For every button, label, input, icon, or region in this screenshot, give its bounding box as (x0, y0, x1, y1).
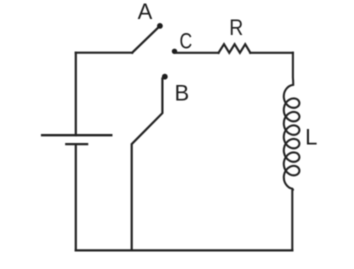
svg-text:C: C (179, 30, 192, 54)
svg-text:B: B (174, 81, 189, 106)
wire (75, 53, 77, 136)
wire (76, 249, 292, 251)
wire (177, 52, 219, 54)
svg-text:A: A (138, 0, 153, 24)
switch blade A (132, 28, 158, 53)
wire (250, 52, 293, 54)
svg-text:R: R (229, 16, 243, 40)
resistor R (219, 44, 251, 53)
wire (76, 52, 132, 54)
svg-text:L: L (305, 125, 317, 150)
wire (75, 144, 77, 250)
inductor L (284, 53, 300, 251)
contact A (157, 23, 163, 29)
battery V1 (42, 135, 111, 144)
switch blade B (132, 79, 163, 251)
contact B (162, 74, 168, 80)
contact C (172, 49, 177, 54)
